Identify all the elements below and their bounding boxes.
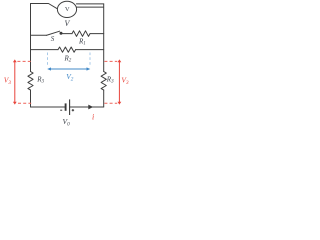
wire bottom rail right [70, 106, 104, 108]
red dashed extension bottom right [104, 102, 117, 104]
battery V0 plates [65, 103, 67, 110]
blue dashed projection line left [47, 53, 49, 67]
wire top rail left of voltmeter [31, 4, 58, 9]
wire left vertical [30, 4, 32, 72]
switch S blade [46, 31, 59, 35]
wire R1 to right rail [90, 33, 104, 35]
voltmeter U1 circle [57, 1, 76, 17]
current arrowhead on bottom wire [88, 105, 93, 110]
wire R2 to right rail [76, 49, 104, 51]
svg-text:i: i [92, 112, 94, 121]
wire switch to R1 [62, 33, 72, 35]
wire top rail right of voltmeter (double line) [76, 3, 103, 5]
battery minus sign [60, 109, 62, 111]
wire right vertical [103, 4, 105, 72]
resistor R3 left zigzag [28, 72, 33, 91]
wire left vertical lower [30, 90, 32, 107]
resistor R2 zigzag [58, 47, 76, 52]
blue dashed projection line right [89, 53, 91, 67]
resistor R1 zigzag [72, 31, 90, 37]
switch contact dot [60, 32, 63, 35]
red dashed extension bottom left [18, 102, 31, 104]
wire bottom rail left [31, 106, 66, 108]
svg-text:S: S [51, 35, 55, 43]
battery plus sign [72, 109, 74, 111]
resistor R3 right zigzag [101, 72, 106, 91]
red dashed extension top left [17, 60, 31, 62]
wire right vertical lower [103, 90, 105, 107]
wire R2 rail left [31, 49, 59, 51]
svg-text:V: V [65, 6, 70, 13]
wire second top line [76, 6, 103, 8]
blue dimension arrow V2 [49, 68, 89, 70]
red dashed extension top right [104, 60, 117, 62]
wire switch rail left [31, 34, 47, 36]
red dimension arrow V3 right [118, 62, 120, 103]
red dimension arrow V3 left [14, 62, 16, 103]
